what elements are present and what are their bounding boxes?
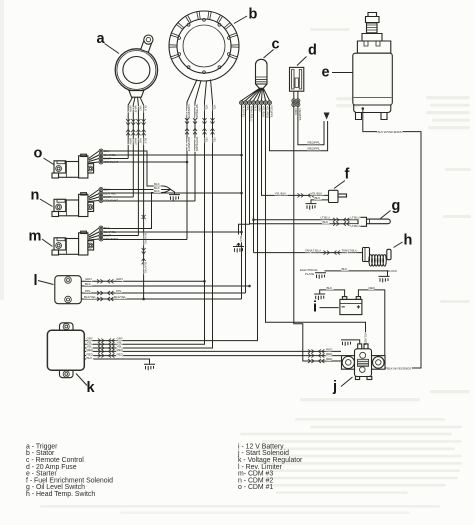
trigger wire labels row1 — [128, 106, 147, 113]
g connector chevrons — [333, 218, 349, 222]
svg-text:o - CDM #1: o - CDM #1 — [238, 484, 273, 491]
coil n row1 BLK — [103, 189, 163, 191]
svg-text:YEL: YEL — [205, 137, 209, 143]
rev limiter PPL row — [81, 292, 245, 294]
label m — [29, 229, 53, 247]
wire w5 GRY bus — [84, 105, 257, 341]
label i — [313, 300, 339, 316]
svg-text:PPL: PPL — [85, 289, 91, 293]
ground under BLK merge — [169, 195, 180, 201]
trigger a — [115, 35, 157, 91]
electrical plate text — [300, 268, 318, 276]
label g — [381, 198, 401, 219]
ground at battery negative — [314, 294, 325, 300]
svg-text:BLOCK: BLOCK — [387, 269, 398, 273]
connector c wire labels — [242, 106, 274, 122]
coil n row2 BLK/YEL — [103, 192, 242, 194]
svg-text:BRN: BRN — [128, 138, 132, 144]
svg-text:h: h — [404, 233, 413, 249]
svg-text:GRN/WHT: GRN/WHT — [187, 137, 191, 151]
coil n row4 to stator — [103, 200, 195, 202]
label o — [34, 146, 55, 166]
rev limiter GRN row — [81, 280, 204, 282]
svg-text:PLATE: PLATE — [305, 272, 314, 276]
ground under w3 — [237, 243, 241, 246]
ground above solenoid — [352, 340, 360, 344]
coil o row3 to trigger — [103, 158, 128, 160]
svg-text:YEL: YEL — [213, 105, 217, 111]
wire w3 BLK bus — [239, 105, 250, 235]
coil n row3 to trigger — [103, 196, 133, 198]
svg-text:BLK W/YEL ENDS: BLK W/YEL ENDS — [378, 130, 402, 134]
fuel enrichment solenoid f — [329, 190, 347, 202]
svg-text:RED: RED — [326, 352, 333, 356]
trigger connectors — [126, 119, 130, 135]
svg-text:BRN: BRN — [128, 106, 132, 112]
svg-text:j: j — [332, 379, 337, 395]
coil m row3 to trigger — [103, 235, 138, 237]
svg-text:a: a — [97, 31, 106, 47]
svg-text:RED: RED — [117, 352, 124, 356]
svg-text:b: b — [249, 7, 258, 23]
oil level switch g — [358, 217, 390, 226]
svg-text:VIO: VIO — [139, 138, 143, 144]
svg-text:i: i — [313, 300, 317, 316]
coil m row4 to stator — [103, 239, 187, 241]
stator wire 1 — [187, 80, 197, 240]
junction dot stator w3 / rev limiter GRN — [203, 280, 206, 283]
junction dot g tap — [252, 219, 255, 222]
connector c wire fan — [242, 88, 270, 100]
stator wire 2 — [195, 81, 201, 202]
harness arrow — [324, 113, 330, 120]
wire w8 RED/PPL bus — [270, 105, 328, 151]
svg-text:PPL: PPL — [116, 289, 122, 293]
g BLK wire — [250, 223, 359, 225]
head temp switch h — [363, 248, 392, 267]
h TAN/LT.BLU wire — [254, 252, 363, 254]
BLK merge node — [163, 186, 175, 194]
svg-text:LT.BLU: LT.BLU — [351, 224, 360, 228]
svg-text:RED/PPL: RED/PPL — [308, 141, 321, 145]
regulator YEL row1 label/connector — [98, 342, 114, 346]
f BLK ground wire — [311, 200, 329, 203]
ground at block — [379, 276, 390, 282]
stator b — [169, 11, 239, 81]
svg-text:e: e — [322, 65, 330, 81]
label e — [322, 65, 353, 81]
svg-text:RED/PPL: RED/PPL — [270, 106, 274, 119]
coil m row2 BLK/YEL — [103, 231, 242, 233]
svg-text:BLK/YEL: BLK/YEL — [114, 295, 126, 299]
svg-text:TAN/LT.BLU: TAN/LT.BLU — [342, 249, 358, 253]
svg-text:BLK/YEL: BLK/YEL — [84, 295, 96, 299]
battery i — [340, 297, 362, 315]
label k — [76, 374, 96, 397]
electrical plate BLK wire to block — [325, 271, 388, 276]
svg-text:YEL: YEL — [205, 105, 209, 111]
stator wire labels row1 — [187, 105, 217, 119]
CDM #1 coil o — [52, 149, 118, 178]
regulator BLK ground row — [84, 359, 149, 364]
label c — [264, 37, 280, 59]
label a — [97, 31, 120, 53]
svg-text:RED: RED — [326, 357, 333, 361]
svg-text:WHT/GRN: WHT/GRN — [195, 137, 199, 151]
g LT.BLU wire — [254, 219, 359, 221]
svg-text:WHT: WHT — [133, 106, 137, 113]
wire w2 PPL bus — [245, 105, 247, 293]
wire w6 YEL/BLK bus — [262, 105, 329, 196]
RED connectors near solenoid — [308, 349, 324, 353]
label j — [332, 377, 353, 395]
trigger wire 3 — [137, 97, 140, 235]
svg-text:YEL/BLK: YEL/BLK — [311, 191, 324, 195]
CDM #2 coil n — [52, 188, 118, 217]
rev limiter BLK row — [81, 285, 249, 287]
coil o row4 to stator — [103, 161, 187, 163]
ground under f — [306, 204, 317, 210]
svg-text:h - Head Temp. Switch: h - Head Temp. Switch — [26, 491, 95, 498]
svg-text:RED: RED — [369, 286, 376, 290]
battery BLK ground wire — [320, 290, 345, 297]
fuse RED/PPL wire to harness arrow — [298, 107, 324, 145]
starter e — [353, 13, 393, 120]
trigger wire labels row2 — [128, 138, 147, 145]
label b — [234, 7, 258, 24]
stator wire labels row2 — [187, 137, 217, 151]
rev limiter BLK/YEL row — [81, 298, 241, 300]
svg-text:WHT: WHT — [133, 138, 137, 145]
label f — [334, 167, 350, 189]
regulator RED row2 — [84, 355, 341, 357]
coil o row1 BLK — [103, 151, 163, 186]
stator wire 3 (YEL to regulator) — [84, 81, 206, 345]
ground for regulator — [144, 364, 155, 370]
starter BLK W/YEL cable loop — [363, 109, 421, 369]
svg-text:BLK/YEL: BLK/YEL — [144, 262, 148, 274]
label n — [31, 188, 53, 207]
svg-text:RED/PPL: RED/PPL — [308, 147, 321, 151]
trigger wire 2 — [133, 97, 135, 197]
crossing mark on trigger wire 4 — [142, 215, 146, 219]
svg-text:BLK W/YEL ENDS: BLK W/YEL ENDS — [387, 366, 411, 370]
svg-text:RED: RED — [326, 347, 333, 351]
svg-text:YEL/BLK: YEL/BLK — [275, 191, 288, 195]
CDM #3 coil m — [52, 226, 118, 255]
stator connectors — [185, 118, 189, 134]
regulator GRY row label/connector — [98, 339, 114, 343]
svg-text:VIO: VIO — [139, 106, 143, 112]
fuse ring terminals — [292, 99, 296, 103]
svg-text:m: m — [29, 229, 42, 245]
remote control connector c — [256, 59, 268, 88]
svg-text:d: d — [308, 43, 317, 59]
battery RED wire to solenoid — [358, 290, 384, 357]
svg-text:f: f — [345, 167, 350, 183]
junction dot stator w1 / coil o row4 — [186, 161, 189, 164]
svg-text:YEL: YEL — [213, 137, 217, 143]
trigger connector — [129, 91, 144, 98]
wire w4 TAN bus — [253, 105, 255, 253]
svg-text:GRN/WHT: GRN/WHT — [187, 105, 191, 119]
junction dot t4 to rev limiter row — [142, 298, 145, 301]
ground at electrical plate — [315, 273, 326, 279]
svg-text:WHT/GRN: WHT/GRN — [195, 105, 199, 119]
ring terminals of connector c — [240, 101, 244, 105]
regulator YEL row2 label/connector — [98, 346, 114, 350]
trigger wire 1 — [128, 97, 132, 158]
svg-text:n: n — [31, 188, 40, 204]
rev limiter l — [55, 276, 82, 304]
svg-text:GRN: GRN — [85, 277, 92, 281]
coil m row1 BLK — [103, 193, 163, 229]
svg-text:GRN: GRN — [116, 277, 123, 281]
regulator RED row1 — [84, 350, 341, 352]
20 amp fuse d — [290, 67, 304, 99]
svg-text:l: l — [34, 273, 38, 289]
wire w1 BLK/YEL bus — [241, 105, 243, 299]
svg-text:g: g — [392, 198, 401, 214]
label l — [34, 273, 54, 289]
svg-text:TAN/LT.BLU: TAN/LT.BLU — [305, 249, 321, 253]
svg-text:LT.BLU: LT.BLU — [351, 216, 360, 220]
label d — [297, 43, 317, 66]
start solenoid j — [342, 344, 386, 380]
svg-text:k: k — [87, 380, 96, 396]
h connector chevrons — [324, 251, 340, 255]
fuse RED wire down to solenoid — [294, 107, 341, 361]
f connector chevrons — [298, 193, 314, 197]
wire w7 YEL/RED bus — [266, 105, 366, 344]
label h — [394, 233, 413, 249]
svg-text:o: o — [34, 146, 43, 162]
coil o row2 BLK/YEL — [103, 154, 242, 156]
svg-text:RED/PPL: RED/PPL — [298, 109, 302, 122]
voltage regulator k — [47, 323, 84, 378]
trigger wire 4 — [140, 97, 144, 299]
stator wire 4 (YEL to regulator) — [84, 80, 212, 349]
